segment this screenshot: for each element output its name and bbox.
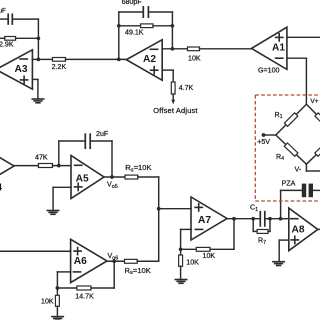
wire A7 output to C1 [227, 218, 260, 220]
piezo element PZA [302, 184, 313, 198]
svg-text:10K: 10K [203, 252, 216, 260]
node Vo6 [112, 259, 116, 263]
A2 plus pin [151, 67, 158, 74]
svg-text:uF: uF [0, 8, 6, 15]
ground A8 [273, 262, 284, 266]
wire cap1 left lead [0, 18, 8, 20]
resistor 47K [38, 164, 71, 168]
svg-text:680pF: 680pF [122, 0, 143, 6]
resistor 49.1K [119, 24, 173, 28]
A3 plus pin [21, 76, 28, 83]
wire A1 minus to bridge V+ [287, 58, 307, 104]
dashed red box (bridge sensor boundary) [255, 95, 320, 201]
ground A5 [47, 211, 58, 215]
wire PZA down to A8 input [280, 190, 282, 218]
A1 minus pin [276, 57, 283, 59]
svg-text:14.7K: 14.7K [75, 293, 94, 301]
op-amp A8 (points right) [289, 208, 318, 251]
wire A1 plus input to edge [287, 36, 320, 38]
node feedback right mid [171, 24, 175, 28]
op-amp A2 (points left) [126, 40, 162, 81]
A8 minus pin [291, 218, 298, 220]
svg-text:A3: A3 [15, 64, 28, 75]
wire A8 plus to ground [279, 240, 289, 262]
A8 plus pin [291, 236, 298, 243]
wire summing vertical bus [158, 177, 160, 261]
op-amp A7 (points right) [191, 197, 227, 240]
junction node 2.9K/feedback [37, 36, 41, 40]
svg-text:PZA: PZA [282, 180, 296, 188]
resistor Rs=10K (Vo5) [125, 175, 159, 179]
wire A3 minus input [32, 58, 38, 60]
svg-text:A2: A2 [143, 54, 156, 65]
A6 plus pin [74, 248, 81, 255]
svg-text:G=100: G=100 [258, 66, 280, 74]
node A7 output junction [232, 217, 236, 221]
svg-text:V-: V- [295, 165, 302, 173]
wheatstone bridge arm L-B with resistor R4 [276, 135, 307, 164]
node Vo5 [110, 175, 114, 179]
wheatstone bridge arm T-R with resistor R2 (clipped) [306, 104, 320, 135]
svg-text:4.7K: 4.7K [179, 84, 194, 92]
svg-text:Rs=10K: Rs=10K [125, 163, 151, 173]
wire A5 plus to ground [53, 187, 71, 210]
wire A2 feedback right vertical [171, 12, 173, 49]
node C1 right [268, 217, 272, 221]
svg-text:A4: A4 [0, 183, 2, 194]
svg-text:+5V: +5V [257, 138, 270, 146]
svg-text:2.2K: 2.2K [52, 63, 67, 71]
wire A7 minus input [181, 229, 191, 249]
wire C1 to A8 minus [265, 218, 289, 220]
svg-text:2uF: 2uF [96, 130, 109, 138]
wheatstone bridge arm B-R with resistor R3 (clipped) [306, 135, 320, 164]
A7 minus pin [195, 228, 202, 230]
svg-text:V+: V+ [310, 98, 318, 105]
node C1 left [251, 217, 255, 221]
ground A6 [52, 317, 63, 320]
wire A5 output [104, 176, 126, 178]
A2 minus pin [150, 48, 157, 50]
resistor 10K (A6 to ground) [55, 288, 59, 317]
A1 plus pin [276, 34, 283, 41]
wire +5V to bridge left vertex [264, 134, 276, 136]
wire A3 plus input [32, 79, 38, 99]
wire A8 output [318, 228, 320, 230]
wire A2 feedback left vertical [118, 12, 120, 59]
svg-text:47K: 47K [35, 154, 48, 162]
capacitor 1uF (top-left, label clipped) [8, 14, 12, 24]
svg-text:10K: 10K [188, 55, 201, 63]
capacitor 680pF [119, 7, 173, 17]
svg-text:A8: A8 [292, 225, 305, 236]
wheatstone bridge arm T-L with resistor R1 [276, 104, 307, 135]
wire summing node to A7 plus [159, 208, 191, 210]
node summing junction [157, 207, 161, 211]
op-amp A6 (points right) [71, 239, 107, 282]
wire A5 feedback right vertical [111, 141, 113, 177]
resistor 2.2K [38, 58, 126, 62]
node A6 feedback junction [56, 286, 60, 290]
resistor Rs=10K (Vo6) [125, 259, 159, 263]
wire PZA left lead [281, 189, 302, 191]
svg-text:49.1K: 49.1K [125, 29, 144, 37]
A6 minus pin [73, 271, 80, 273]
node A2 output junction [117, 58, 121, 62]
svg-text:A6: A6 [74, 256, 87, 267]
op-amp A1 (points left) [252, 27, 287, 69]
resistor 4.7K (vertical) [171, 82, 175, 104]
ground A7 [175, 280, 186, 284]
wire A6 plus input from edge [0, 250, 71, 252]
wire PZA right lead [313, 189, 320, 191]
svg-text:2.9K: 2.9K [0, 40, 14, 48]
wire bridge V- out [306, 164, 320, 171]
svg-text:10K: 10K [41, 298, 54, 306]
svg-text:A1: A1 [272, 42, 285, 53]
node A7 feedback junction [179, 247, 183, 251]
resistor 2.9K [0, 37, 38, 41]
resistor 10K (A7 to ground) [179, 249, 183, 279]
svg-text:Rs=10K: Rs=10K [125, 266, 151, 276]
wire A4 output to 47K [14, 165, 38, 167]
capacitor 2uF [59, 134, 112, 148]
node A3 minus junction [37, 58, 41, 62]
resistor R7 (parallel with C1) [253, 219, 270, 234]
svg-text:A5: A5 [76, 173, 89, 184]
op-amp A4 (clipped at left edge) [0, 145, 14, 188]
wire A6 minus input [57, 272, 70, 288]
node feedback left mid [117, 24, 121, 28]
A7 plus pin [195, 204, 202, 211]
resistor 10K (A7 feedback) [181, 219, 234, 252]
A5 minus pin [75, 164, 82, 166]
op-amp A3 (points left) [0, 50, 32, 89]
capacitor C1 [260, 212, 265, 226]
resistor 10K (A1 output) [188, 47, 253, 51]
node PZA junction [279, 217, 283, 221]
wire cap1 right lead to node [12, 18, 38, 20]
node A5 minus junction [57, 164, 61, 168]
wire A5 feedback left vertical [58, 141, 60, 166]
node A2 minus junction [171, 47, 175, 51]
wire A2 plus input [162, 70, 173, 82]
op-amp A5 (points right) [71, 156, 104, 199]
wire A6 output [107, 260, 126, 262]
A3 minus pin [20, 58, 27, 60]
svg-text:Offset Adjust: Offset Adjust [153, 106, 197, 115]
resistor 14.7K [57, 261, 114, 290]
ground A3 [32, 99, 43, 103]
wire vertical feedback bus A3 [37, 19, 39, 59]
svg-text:A7: A7 [198, 215, 211, 226]
svg-text:10K: 10K [186, 259, 199, 267]
terminal +5V [262, 133, 266, 137]
A5 plus pin [75, 183, 82, 190]
wire A2 minus input to 10K [162, 48, 187, 50]
